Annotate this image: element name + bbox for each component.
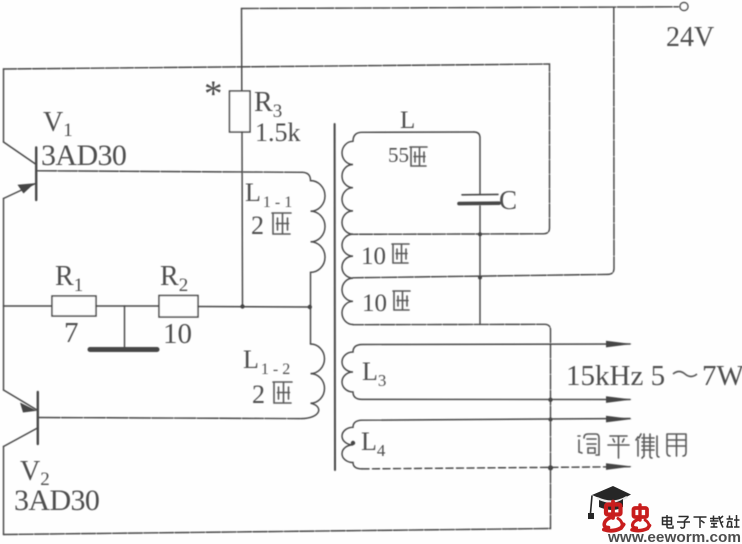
inductor L3 with leads bbox=[342, 344, 630, 400]
watermark worm characters bbox=[604, 502, 650, 531]
svg-text:7: 7 bbox=[64, 317, 79, 349]
wire frame top + right rail + tap1 to winding bbox=[4, 64, 550, 234]
svg-text:3AD30: 3AD30 bbox=[41, 139, 126, 172]
wire R3 bottom lead down to R2 node bbox=[241, 132, 244, 307]
label CJK turns unit of first 10T bbox=[392, 244, 409, 263]
inductor L4 with leads bbox=[342, 419, 630, 469]
resistor R1 bbox=[52, 296, 96, 316]
wire top supply rail from R3 top to 24V terminal bbox=[242, 7, 679, 9]
watermark site name CJK bbox=[663, 515, 740, 528]
label tilde bbox=[673, 372, 697, 377]
svg-text:3AD30: 3AD30 bbox=[14, 484, 99, 517]
inductor secondary winding sections bbox=[342, 141, 353, 324]
transistor V1 bbox=[4, 142, 37, 200]
wire V2 base to L1-2 bbox=[39, 418, 300, 419]
wire left rail middle bbox=[3, 199, 5, 391]
wire R1 to R2 bbox=[96, 305, 159, 307]
wire left rail bottom bbox=[3, 447, 5, 535]
junction L4 winding dot bbox=[351, 441, 355, 445]
svg-text:www.eeworm.com: www.eeworm.com bbox=[607, 529, 741, 544]
label CJK turns unit of L1-2 bbox=[273, 382, 292, 403]
wire 24V feed rail to tap2 bbox=[353, 8, 614, 278]
wire rail to R1 bbox=[4, 305, 53, 307]
svg-text:2: 2 bbox=[252, 380, 265, 409]
wire frame bottom + right lower rail + tap3 bbox=[4, 324, 551, 534]
wire R2 to primary centre tap bbox=[198, 306, 310, 309]
svg-text:*: * bbox=[204, 74, 223, 115]
junction C lead tap2 bbox=[478, 276, 482, 280]
watermark graduation cap bbox=[588, 486, 631, 519]
transistor V2 bbox=[4, 390, 38, 447]
capacitor C plates bbox=[462, 193, 498, 195]
label CJK balancing-adjust note bbox=[578, 434, 686, 458]
transformer core bbox=[334, 124, 336, 470]
junction right rail L3 bottom bbox=[548, 398, 552, 402]
arrow output 3 bbox=[606, 416, 632, 423]
wire V1 base to L1-1 bbox=[38, 171, 303, 173]
label CJK turns unit of L1-1 bbox=[272, 213, 291, 234]
junction primary centre tap bbox=[308, 305, 312, 309]
ground bar bbox=[90, 347, 157, 352]
resistor R3 bbox=[230, 91, 251, 132]
svg-text:C: C bbox=[499, 185, 517, 215]
svg-text:10: 10 bbox=[163, 318, 192, 350]
svg-text:7W: 7W bbox=[702, 360, 742, 392]
svg-text:10: 10 bbox=[362, 290, 387, 317]
terminal 24V bbox=[680, 3, 688, 11]
junction R3-R2 node bbox=[240, 304, 244, 308]
junction right rail L4 top bbox=[549, 418, 553, 422]
junction C lead tap1 bbox=[478, 232, 482, 236]
inductor secondary top section 55T with corner to C lead bbox=[474, 132, 480, 194]
wire R3 top lead bbox=[241, 9, 243, 92]
wire C bottom lead through taps bbox=[479, 206, 481, 324]
svg-text:2: 2 bbox=[251, 211, 264, 240]
svg-text:L: L bbox=[400, 107, 415, 134]
wire L4 bottom dashed output bbox=[362, 467, 630, 469]
label CJK turns unit of second 10T bbox=[393, 291, 410, 310]
svg-text:15kHz 5: 15kHz 5 bbox=[566, 360, 665, 392]
inductor L1-1 primary winding 2T bbox=[302, 172, 325, 344]
label CJK turns unit of 55T bbox=[410, 147, 427, 166]
ground stem bbox=[124, 306, 126, 347]
CJK glyphs group bbox=[272, 147, 686, 458]
svg-text:1.5k: 1.5k bbox=[255, 118, 301, 147]
svg-text:55: 55 bbox=[388, 143, 409, 167]
arrow output 2 bbox=[606, 396, 632, 403]
svg-text:24V: 24V bbox=[666, 22, 714, 53]
resistor R2 bbox=[159, 296, 198, 318]
junction right rail L4 bottom bbox=[548, 465, 553, 470]
arrow output 4 bbox=[606, 463, 632, 470]
wire left rail top bbox=[3, 69, 5, 142]
inductor L1-2 primary winding 2T bbox=[301, 344, 325, 419]
svg-text:10: 10 bbox=[361, 243, 386, 270]
arrow output 1 bbox=[606, 341, 632, 348]
